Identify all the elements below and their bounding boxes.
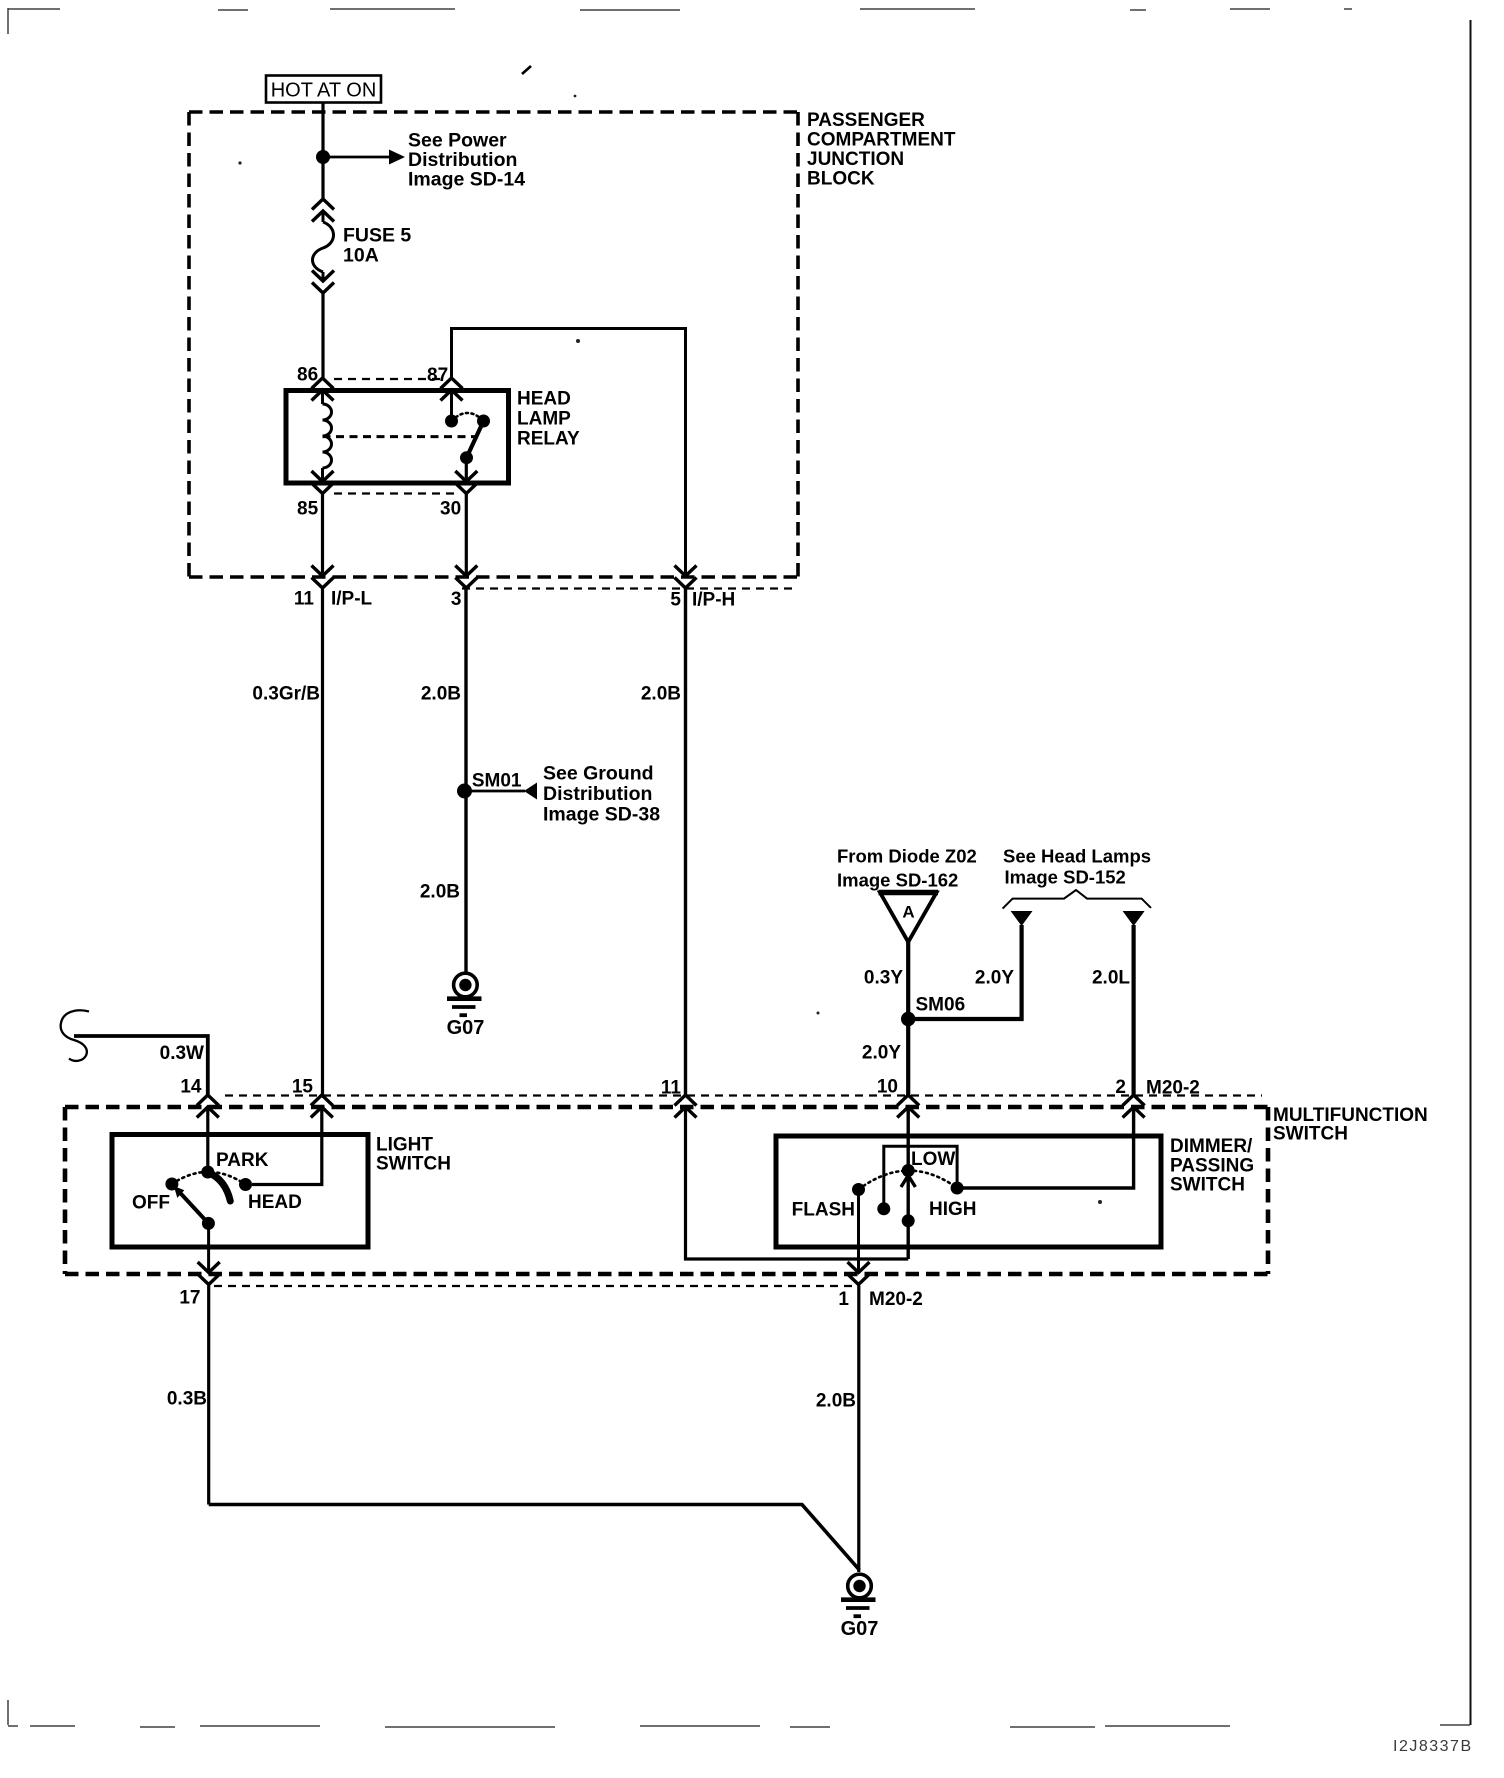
dimmer FLASH contact dot [852,1183,865,1196]
svg-text:See Ground: See Ground [543,763,654,785]
svg-text:PASSENGER: PASSENGER [807,110,925,131]
svg-text:2.0Y: 2.0Y [975,968,1014,989]
svg-text:HEAD: HEAD [248,1192,302,1213]
wire from HOT AT ON into junction block [321,103,324,200]
connector row thin dashed line bottom [214,1285,853,1287]
brace over head lamp wires [1003,890,1151,909]
svg-text:See Head Lamps: See Head Lamps [1003,846,1151,867]
ground G07 lower [841,1574,879,1640]
svg-text:1: 1 [838,1289,849,1310]
wire 15 to HEAD contact [252,1107,322,1185]
svg-text:0.3Y: 0.3Y [864,968,903,989]
svg-text:14: 14 [180,1077,202,1098]
node SM01 splice [457,784,472,799]
wire 0.3Y diode to SM06 [906,942,910,1019]
fuse F5 bottom connector chevrons [312,271,334,294]
svg-text:2.0Y: 2.0Y [862,1043,901,1064]
dimmer aux contact dot [877,1202,890,1215]
svg-text:85: 85 [297,499,319,520]
svg-text:15: 15 [292,1077,314,1098]
arrowhead to SD-14 [389,150,405,165]
wire relay 30 to connector 3 [465,494,468,576]
svg-text:SM01: SM01 [472,771,522,792]
svg-text:M20-2: M20-2 [869,1289,923,1310]
arrowhead to SD-38 [524,783,537,800]
dimmer LOW contact dot [902,1164,915,1177]
svg-text:PARK: PARK [216,1150,269,1171]
relay contact 87 dot [445,415,458,428]
ground G07 upper [447,973,485,1039]
svg-text:Image SD-38: Image SD-38 [543,804,660,826]
svg-text:COMPARTMENT: COMPARTMENT [807,130,956,151]
svg-text:LOW: LOW [911,1149,955,1170]
wire relay coil bottom stub [321,468,324,482]
wire dimmer common down [907,1171,910,1260]
wire 0.3Gr/B connector 11 to switch 15 [321,589,324,1096]
wire 2.0Y head lamp low to SM06 [908,925,1021,1019]
wire 2.0B connector 5 to switch 11 [684,589,687,1096]
svg-text:FUSE 5: FUSE 5 [343,225,411,247]
wire 0.3B across to ground G07 [209,1505,860,1571]
svg-text:10A: 10A [343,245,379,267]
light switch HEAD contact dot [239,1178,252,1191]
wire FLASH contact to pin 1 [857,1190,860,1273]
wire 14 to PARK contact [206,1107,209,1172]
connector 14 chevrons [197,1095,219,1118]
wire 0.3B pin 17 down [207,1286,210,1505]
svg-text:Image SD-14: Image SD-14 [408,169,525,191]
svg-text:SWITCH: SWITCH [376,1154,451,1175]
svg-text:I/P-L: I/P-L [331,589,373,610]
light switch OFF contact dot [165,1178,178,1191]
dimmer dotted travel arc [859,1171,958,1190]
relay pin 86 chevrons [312,378,334,401]
wire 2.0L head lamp high to switch 2 [1131,925,1135,1095]
head lamp wire right arrowhead [1123,911,1145,926]
relay contact NC dot [477,415,490,428]
relay pin 87 chevrons [441,378,463,401]
light switch thick lever arc [209,1173,231,1202]
svg-text:G07: G07 [447,1017,485,1039]
fuse F5 element [313,222,334,272]
connector 15 chevrons [311,1095,333,1118]
svg-text:Distribution: Distribution [543,783,652,805]
svg-text:FLASH: FLASH [792,1200,855,1221]
light switch dotted travel arc [172,1172,246,1185]
svg-text:11: 11 [294,589,315,610]
connector 17 chevrons [198,1262,220,1285]
wire dimmer aux contact loop [884,1146,957,1209]
svg-text:0.3B: 0.3B [167,1389,207,1410]
diode Z02 triangle symbol A [879,893,939,943]
svg-text:LIGHT: LIGHT [376,1135,433,1156]
svg-text:G07: G07 [841,1618,879,1640]
svg-text:17: 17 [179,1288,200,1309]
svg-text:2.0B: 2.0B [816,1391,856,1412]
light switch common contact dot [202,1217,215,1230]
wire 0.3W to switch 14 [74,1036,208,1095]
right page border line [1470,20,1472,1725]
svg-text:LAMP: LAMP [517,409,571,430]
svg-text:HOT AT ON: HOT AT ON [271,80,377,102]
svg-text:I/P-H: I/P-H [692,590,735,611]
svg-text:RELAY: RELAY [517,429,580,450]
wire 0.3W break squiggle [61,1010,89,1061]
wire 2.0B connector 3 to SM01 [464,589,467,792]
svg-text:A: A [902,903,914,922]
wire relay common to pin 30 [465,458,468,482]
connector row thin dashed line top [225,1094,1262,1096]
svg-text:PASSING: PASSING [1170,1156,1254,1177]
multifunction switch dashed box [65,1107,1268,1274]
speck marks [238,95,1102,1204]
connector 2 chevrons [1123,1095,1145,1118]
wire 10 to LOW contact [907,1107,910,1171]
svg-text:SWITCH: SWITCH [1170,1175,1245,1196]
svg-text:Image SD-162: Image SD-162 [837,870,958,891]
wire fuse to relay pin 86 [321,293,324,378]
wire relay pin 87 to contact [450,390,453,421]
wire relay coil top stub [321,390,324,404]
svg-text:JUNCTION: JUNCTION [807,149,904,170]
wire see-power-distribution branch [323,156,390,159]
svg-text:HEAD: HEAD [517,389,571,410]
connector 5 I/P-H chevrons [675,566,697,589]
node power junction [316,150,330,164]
wire SM01 branch [466,790,525,793]
dimmer blade arrowhead up [901,1176,915,1188]
wire fuse bottom stub [322,272,325,281]
HOT AT ON label box [266,76,381,103]
svg-text:SM06: SM06 [916,995,966,1016]
svg-text:10: 10 [877,1077,898,1098]
wire 2.0Y SM06 to switch 10 [906,1019,910,1095]
svg-text:2.0B: 2.0B [421,684,461,705]
connector 11 I/P-L chevrons [312,566,334,589]
svg-text:86: 86 [297,365,318,386]
wire fuse top stub [322,211,325,222]
svg-text:SWITCH: SWITCH [1273,1124,1348,1145]
relay pin row dashed 85-30 [334,492,455,494]
wire relay 87 to connector 5 I/P-H [452,329,686,577]
wire 11 to dimmer common junction [686,1107,909,1259]
dimmer passing switch box [776,1136,1161,1247]
relay U1 HEAD LAMP RELAY box [286,391,509,484]
relay contact dotted arc [452,413,484,421]
relay mechanical link dashed [323,435,479,438]
light switch box [112,1135,368,1248]
wire 2.0B pin 1 to ground [857,1286,860,1573]
svg-text:From Diode Z02: From Diode Z02 [837,846,977,867]
svg-text:I2J8337B: I2J8337B [1393,1738,1473,1755]
light switch PARK contact dot [201,1166,214,1179]
dimmer common contact dot [902,1214,915,1227]
svg-text:DIMMER/: DIMMER/ [1170,1136,1253,1157]
light switch blade arrowhead [174,1186,185,1198]
passenger compartment junction block dashed box [189,112,798,577]
svg-text:2.0B: 2.0B [420,882,460,903]
svg-text:2.0B: 2.0B [641,684,681,705]
relay switch blade [467,421,484,458]
connector 1 M20-2 chevrons [848,1262,870,1285]
relay pin row dashed 86-87 [334,378,440,380]
speck tick mark [522,66,531,74]
connector 3 chevrons [455,566,477,589]
fuse F5 top connector chevrons [312,199,334,222]
relay pin 30 chevrons [455,471,477,494]
svg-text:Image SD-152: Image SD-152 [1005,867,1126,888]
wire SM01 to ground G07 [464,791,467,972]
relay pin 85 chevrons [312,471,334,494]
svg-text:0.3W: 0.3W [160,1043,204,1064]
wire common contact to pin 17 [207,1223,210,1272]
svg-text:3: 3 [451,589,462,610]
wire HIGH contact to pin 2 [957,1107,1134,1188]
connector 10 chevrons [897,1095,919,1118]
svg-text:HIGH: HIGH [929,1199,977,1220]
svg-text:5: 5 [670,590,681,611]
connector row dashed line [462,587,798,589]
svg-text:OFF: OFF [132,1193,170,1214]
relay coil [323,404,332,468]
dimmer HIGH contact dot [951,1182,964,1195]
svg-text:2.0L: 2.0L [1092,968,1130,989]
svg-text:30: 30 [440,499,461,520]
head lamp wire left arrowhead [1011,911,1033,926]
connector 11 chevrons [675,1095,697,1118]
svg-text:BLOCK: BLOCK [807,169,875,190]
node SM06 splice [901,1012,915,1026]
wire relay 85 to connector 11 [321,494,324,576]
light switch blade to OFF [178,1190,209,1223]
relay common contact dot [460,451,473,464]
svg-text:0.3Gr/B: 0.3Gr/B [252,684,320,705]
